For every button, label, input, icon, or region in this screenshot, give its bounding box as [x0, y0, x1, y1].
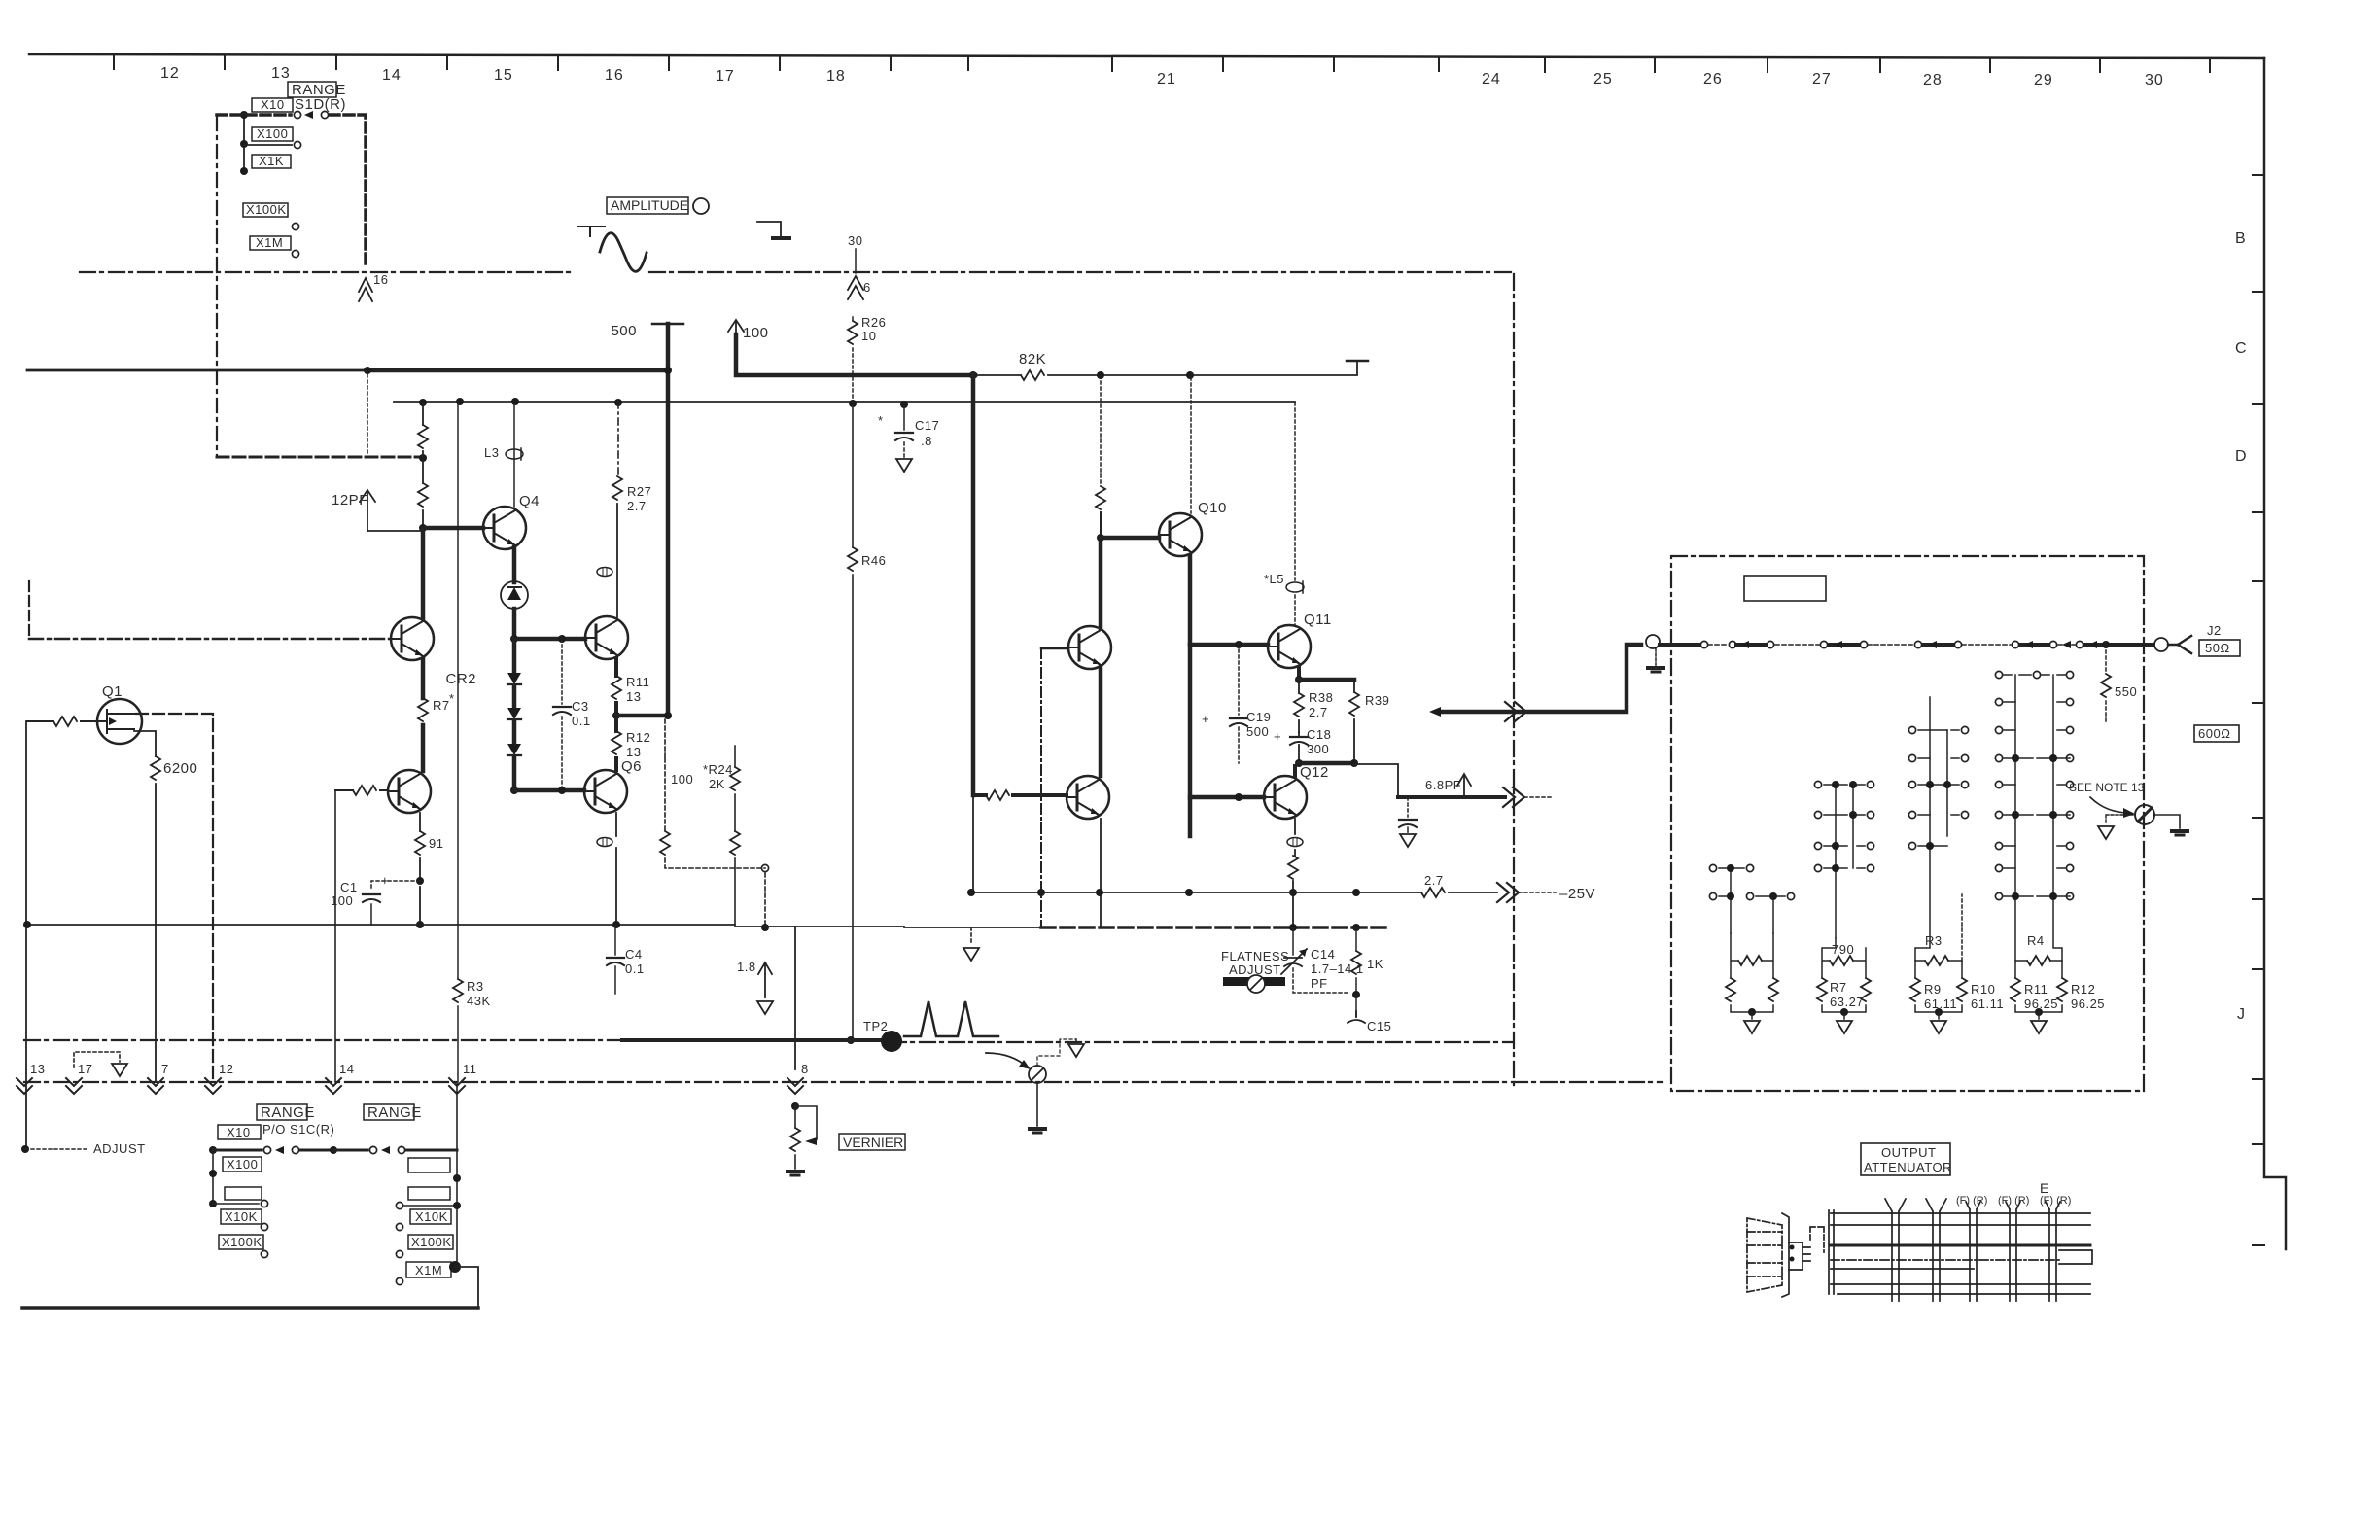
wire bottom heavy rail — [22, 1306, 478, 1310]
svg-text:*R24: *R24 — [703, 762, 733, 777]
wire R46 column — [852, 403, 854, 1038]
RANGE label box lower-right bank — [364, 1104, 414, 1120]
svg-text:CR2: CR2 — [445, 671, 476, 687]
junction y470 / R5 column — [419, 454, 427, 462]
note screw circle — [2135, 805, 2154, 824]
svg-text:2.7: 2.7 — [627, 499, 647, 513]
junction S1D X100 — [240, 140, 248, 148]
svg-text:8: 8 — [801, 1062, 809, 1076]
wire S1D common vertical — [243, 115, 245, 171]
label C1 100 — [331, 873, 389, 908]
wire Q5 base dash-dot — [29, 638, 391, 641]
label E — [2040, 1180, 2048, 1196]
svg-text:C19: C19 — [1246, 710, 1271, 724]
ground arrow below 1.8 — [757, 1001, 773, 1014]
transistor Q5 — [391, 617, 434, 660]
resistor 550 — [2105, 645, 2107, 721]
wire Q1 drain dash to column 12 — [136, 714, 213, 1082]
ground arrow left of screw — [2106, 815, 2135, 824]
resistor R26 10 — [852, 317, 854, 402]
svg-text:82K: 82K — [1019, 351, 1046, 367]
switch S1Cb X100K box — [408, 1235, 453, 1249]
label C15 — [1367, 1019, 1391, 1033]
transistor Q12 — [1264, 776, 1307, 819]
label 790 — [1832, 942, 1854, 957]
wire amplifier output heavy — [1437, 645, 1641, 712]
svg-text:0.1: 0.1 — [625, 962, 645, 976]
wire emitter rail y951 — [27, 924, 735, 926]
svg-text:24: 24 — [1482, 71, 1501, 87]
svg-text:(F) (R): (F) (R) — [2040, 1195, 2071, 1207]
junction Q12 base — [1235, 793, 1242, 801]
svg-text:16: 16 — [373, 272, 388, 287]
svg-text:S1D(R): S1D(R) — [295, 96, 346, 113]
wire TP2 heavy segment on box bottom — [622, 1038, 880, 1042]
attenuator section 3 contacts — [1915, 697, 1959, 961]
wire S1Cb right column — [456, 1082, 458, 1266]
switch S1C X100 box — [223, 1157, 262, 1172]
svg-text:550: 550 — [2115, 684, 2137, 699]
amplifier box dashed top border — [80, 271, 1513, 273]
junction R46 at box bottom — [847, 1036, 855, 1044]
chevrons output crossing box — [1505, 702, 1526, 721]
ground symbol near amplitude — [757, 222, 789, 238]
svg-text:61.11: 61.11 — [1971, 997, 2004, 1011]
ground arrow mid — [970, 927, 972, 945]
label R11 96.25 — [2024, 982, 2058, 1011]
svg-text:29: 29 — [2034, 72, 2053, 88]
label 2.7 — [1424, 873, 1444, 888]
svg-text:14: 14 — [339, 1062, 354, 1076]
arrow 1.8 up — [758, 962, 772, 997]
switch position label X100K — [243, 203, 288, 217]
wire Q12 collector stub — [1293, 766, 1297, 776]
capacitor 12PF — [360, 490, 375, 531]
svg-text:500: 500 — [1246, 724, 1269, 739]
svg-text:R7: R7 — [433, 698, 450, 713]
label + C19 500 — [1202, 710, 1271, 739]
wire preset to ground — [1036, 1083, 1038, 1126]
junction bus / C14 — [1289, 924, 1297, 931]
contact X1M row — [292, 250, 298, 257]
switch S1C X100K box — [219, 1235, 263, 1249]
wire output node thin to corner — [1354, 764, 1398, 797]
wire R5 column — [422, 402, 424, 528]
AMPLITUDE control label — [607, 197, 688, 214]
ground jumper at 17 — [74, 1052, 120, 1067]
zone letters B C D J — [2235, 230, 2248, 1023]
svg-text:C17: C17 — [915, 418, 939, 433]
node 14 entry — [326, 1078, 341, 1094]
svg-text:27: 27 — [1812, 71, 1832, 87]
svg-text:*: * — [449, 691, 455, 706]
svg-text:25: 25 — [1593, 71, 1613, 87]
resistor 1K — [1355, 927, 1357, 995]
wire Q9 base with resistor — [973, 793, 1067, 797]
capacitor 500 feedthrough — [652, 323, 683, 326]
label Q10 — [1198, 500, 1227, 516]
junction -25V / Q12 emitter — [1289, 889, 1297, 896]
wire Q9 emitter down — [1100, 819, 1102, 927]
label 6200 — [163, 760, 197, 777]
wire Q12 emitter with bead — [1293, 819, 1295, 927]
amplifier box dashed right border — [1513, 274, 1515, 1089]
svg-text:R12: R12 — [626, 730, 650, 745]
label R46 — [861, 553, 886, 568]
attenuator section 4 contacts — [2004, 675, 2070, 961]
wire Q11 base heavy — [1190, 643, 1268, 647]
wire Q10 collector dotted up — [1190, 377, 1192, 513]
wire preset sense dotted — [1037, 1039, 1076, 1066]
border zone ticks — [2253, 175, 2264, 1245]
svg-text:13: 13 — [626, 689, 641, 704]
svg-text:FLATNESS: FLATNESS — [1221, 949, 1289, 963]
junction rail A / 12PF column — [364, 367, 371, 374]
label CR2 — [445, 671, 476, 687]
svg-text:12: 12 — [160, 65, 180, 82]
resistor R3 43K — [453, 979, 463, 1002]
chevrons -25V crossing — [1497, 883, 1519, 902]
label R26 10 — [861, 315, 886, 343]
svg-text:PF: PF — [1311, 976, 1328, 991]
arrow X10 wiper — [304, 111, 313, 119]
label Q11 — [1304, 612, 1332, 628]
svg-text:ATTENUATOR: ATTENUATOR — [1864, 1160, 1952, 1174]
waveform pulses — [904, 1001, 998, 1036]
node 12 entry — [205, 1078, 221, 1094]
wire Q6u collector with R27 — [617, 402, 619, 476]
wire diode to node — [512, 609, 517, 639]
svg-text:43K: 43K — [467, 994, 491, 1008]
label FLATNESS ADJUST — [1221, 949, 1289, 977]
switch S1C X10K box — [221, 1209, 262, 1224]
label 12PF — [332, 492, 368, 508]
wire rail951 right segment — [735, 926, 904, 927]
svg-text:R38: R38 — [1309, 690, 1333, 705]
svg-text:J: J — [2237, 1006, 2246, 1023]
svg-text:C14: C14 — [1311, 947, 1335, 962]
svg-text:Q10: Q10 — [1198, 500, 1227, 516]
bead on Q6 emitter — [597, 838, 612, 847]
arrow to note screw — [2090, 797, 2127, 813]
junction output node left — [1295, 759, 1303, 767]
transistor Q6 — [584, 770, 627, 813]
junction rail C / R27 — [614, 399, 622, 406]
junction rail B / Q10 collector — [1186, 371, 1194, 379]
sine source symbol — [578, 227, 647, 271]
junction rail C / R26 — [849, 400, 857, 407]
junction X1M wiper — [449, 1261, 461, 1273]
svg-text:X100K: X100K — [222, 1235, 262, 1249]
svg-text:.8: .8 — [921, 434, 932, 448]
resistor R46 — [848, 547, 857, 571]
node crossing chevrons output — [1503, 787, 1524, 807]
svg-text:28: 28 — [1923, 72, 1942, 88]
svg-text:100: 100 — [671, 772, 693, 787]
label ADJUST — [21, 1145, 29, 1153]
svg-text:91: 91 — [429, 836, 443, 851]
resistor R12 13 — [614, 716, 618, 770]
label S1D(R) — [295, 96, 346, 113]
wire X1M to bottom rail — [455, 1267, 478, 1308]
diode CR2 c — [507, 744, 521, 755]
connector circle at attenuator input — [1646, 635, 1660, 648]
contact at 787/893 — [761, 864, 768, 871]
transistor Q11 — [1268, 625, 1311, 668]
capacitor 100 feedthrough — [728, 320, 744, 334]
svg-text:18: 18 — [826, 68, 846, 85]
wire bias row y470 — [217, 456, 423, 459]
ruler top border line — [29, 54, 2264, 58]
ground at attenuator input — [1655, 648, 1657, 665]
attenuator box dashed border — [1671, 556, 2144, 1091]
transistor Q9 — [1067, 776, 1109, 819]
junction output node right — [1350, 759, 1358, 767]
transistor Q10 — [1159, 513, 1202, 556]
ground bar vernier — [787, 1172, 803, 1175]
attenuator section 2 contacts — [1824, 785, 1865, 938]
resistor 100 — [660, 831, 670, 855]
svg-text:C1: C1 — [340, 880, 358, 894]
junction Q11 base / C19 — [1235, 641, 1242, 648]
svg-text:790: 790 — [1832, 942, 1854, 957]
wire Q8 base dash-dot column — [1041, 647, 1068, 650]
attenuator mechanical drawing knob — [1747, 1213, 1824, 1297]
resistor 2.7 on -25V — [1421, 888, 1445, 897]
wire heavy rail A (left supply line) — [27, 369, 367, 372]
svg-text:X1M: X1M — [415, 1263, 442, 1277]
ruler ticks — [114, 55, 2210, 72]
flatness adjust black bar — [1223, 977, 1285, 986]
wire output node heavy — [1299, 761, 1354, 766]
label 16 — [373, 272, 388, 287]
capacitor C17 — [903, 404, 905, 430]
resistor 82K — [1021, 370, 1044, 380]
J2 fork — [2168, 636, 2191, 653]
svg-text:R9: R9 — [1924, 982, 1942, 997]
attenuator mechanical frame — [1829, 1210, 2092, 1294]
wire Q11 emitter to R39 heavy — [1299, 678, 1354, 682]
transistor Q6u — [585, 616, 628, 659]
wire 6.8PF output line heavy — [1398, 795, 1505, 799]
svg-text:X1M: X1M — [256, 235, 283, 250]
junction node D1 / C3 — [558, 635, 566, 643]
wire attenuator main line thin segments — [1708, 644, 2075, 646]
arrowhead output left — [1429, 707, 1441, 717]
label R27 2.7 — [627, 484, 651, 513]
switch S1Cb blank box b — [408, 1187, 450, 1200]
junction node D2 / C3 — [558, 787, 566, 794]
wire attenuator main line segments — [1660, 643, 2153, 647]
svg-text:R11: R11 — [626, 675, 649, 689]
label 91 — [429, 836, 443, 851]
contact X100 row — [294, 141, 300, 148]
svg-text:OUTPUT: OUTPUT — [1881, 1145, 1936, 1160]
junction rail C / C17 — [900, 401, 908, 408]
svg-text:15: 15 — [494, 67, 513, 84]
junction 550 tap — [2102, 641, 2110, 648]
svg-text:10: 10 — [861, 329, 876, 343]
resistor R5b — [418, 483, 428, 507]
switch S1C X1K box (blank) — [225, 1187, 262, 1200]
junction 1K / C14 — [1352, 991, 1360, 998]
junction bus / 1K — [1352, 924, 1360, 931]
svg-text:R7: R7 — [1830, 980, 1847, 995]
svg-text:2.7: 2.7 — [1309, 705, 1328, 719]
svg-text:(F) (R): (F) (R) — [1998, 1195, 2029, 1207]
junction Q4 base node — [419, 524, 427, 532]
wire Q5b base column to node 14 — [334, 790, 336, 1082]
bead on Q6u collector — [597, 568, 612, 577]
resistor R11 13 — [612, 676, 621, 699]
svg-text:*L5: *L5 — [1264, 572, 1284, 586]
junction rail B / Q9 base feed — [969, 371, 977, 379]
svg-text:E: E — [2040, 1180, 2048, 1196]
sheet right border — [2264, 58, 2286, 1249]
label R3 43K — [467, 979, 491, 1008]
svg-text:R26: R26 — [861, 315, 886, 330]
terminal bar at rail B end — [1347, 360, 1368, 363]
svg-text:12PF: 12PF — [332, 492, 368, 508]
svg-text:TP2: TP2 — [863, 1019, 888, 1033]
junction S1D X1K — [240, 167, 248, 175]
capacitor C1 branch — [371, 881, 420, 891]
labels (F)(R) wafer sides — [1956, 1195, 2071, 1207]
arrow 6.8PF up — [1457, 774, 1471, 797]
svg-text:RANGE: RANGE — [261, 1104, 315, 1121]
svg-text:6200: 6200 — [163, 760, 197, 777]
label 1.8 test point — [737, 960, 756, 974]
switch S1Cb X10K box — [410, 1209, 451, 1224]
svg-text:Q12: Q12 — [1300, 764, 1329, 781]
svg-text:D: D — [2235, 448, 2248, 465]
switch S1Cb X1M box — [406, 1262, 451, 1277]
resistor R24 2K column — [734, 746, 736, 925]
svg-text:6: 6 — [863, 280, 871, 295]
label R24 2K — [703, 762, 733, 791]
wire 100 resistor column — [665, 719, 765, 868]
label R3 — [1925, 933, 1942, 948]
diode CR1 circled — [501, 581, 528, 609]
label R4 — [2027, 933, 2045, 948]
wire Q5 emitter heavy with R7 — [421, 659, 426, 771]
svg-text:21: 21 — [1157, 71, 1176, 87]
svg-text:6.8PF: 6.8PF — [1425, 778, 1461, 792]
svg-text:C3: C3 — [572, 699, 589, 714]
resistor R39 — [1353, 680, 1355, 763]
resistor R5a — [418, 425, 428, 448]
label 550 — [2115, 684, 2137, 699]
switch S1C X10 box — [218, 1125, 261, 1139]
label Q12 — [1300, 764, 1329, 781]
label 6.8PF — [1425, 778, 1461, 792]
wire 12PF to Q4 base node — [367, 530, 423, 532]
wire Q10 base heavy — [1101, 536, 1159, 541]
capacitor C4 0.1 — [614, 925, 616, 994]
junction rail B / Q8 column — [1097, 371, 1104, 379]
wire left dashed drop from X10 row — [216, 117, 218, 457]
wire Q8 emitter to Q9 collector — [1099, 667, 1103, 776]
wire S1C wiper row — [209, 1146, 217, 1154]
inductor L5 on Q11 collector — [1294, 402, 1296, 625]
svg-text:+: + — [381, 873, 389, 888]
wire drop to node 8 — [794, 927, 796, 1069]
node 8 entry — [787, 1078, 803, 1094]
contact X1K left bank — [213, 1203, 259, 1205]
svg-text:13: 13 — [271, 65, 291, 82]
svg-text:X10K: X10K — [415, 1209, 448, 1224]
wire Q4 emitter heavy — [512, 547, 517, 582]
svg-text:+: + — [1274, 729, 1281, 744]
svg-text:50Ω: 50Ω — [2205, 641, 2230, 655]
wire node D1 to Q6u base heavy — [514, 637, 585, 642]
contacts main line — [1700, 641, 1707, 647]
svg-text:R12: R12 — [2071, 982, 2095, 997]
junction C1 tap — [416, 877, 424, 885]
wire X10 wiper row — [217, 113, 291, 117]
inductor L3 on Q4 collector — [513, 402, 515, 507]
resistor 91 — [415, 831, 425, 855]
svg-text:X100K: X100K — [411, 1235, 452, 1249]
switch S1Cb blank box a — [408, 1158, 450, 1172]
contact X10 row — [294, 111, 300, 118]
svg-text:C4: C4 — [625, 947, 643, 962]
junction Q5b emitter rail — [416, 921, 424, 928]
resistor R7* — [418, 698, 428, 721]
wire Q11 emitter node — [1297, 668, 1301, 680]
resistor R38 2.7 — [1298, 680, 1300, 732]
label VERNIER — [839, 1134, 905, 1150]
wire left edge vertical — [25, 721, 27, 1149]
label 50 ohm box — [2199, 640, 2240, 656]
svg-text:+: + — [1202, 712, 1209, 726]
svg-text:SEE NOTE 13: SEE NOTE 13 — [2069, 781, 2145, 794]
node 30 entry — [848, 233, 862, 248]
RANGE label box lower-left bank — [257, 1104, 307, 1120]
svg-text:100: 100 — [743, 325, 769, 341]
junction rail C / R5 column — [419, 399, 427, 406]
label C3 0.1 — [572, 699, 591, 728]
switch position label X1M — [250, 236, 291, 250]
wire connector rail y1113 dash-dot — [24, 1081, 1662, 1083]
wire screw to ground right — [2154, 815, 2180, 828]
junction at 500 column — [664, 712, 672, 719]
svg-text:16: 16 — [605, 67, 624, 84]
svg-text:AMPLITUDE: AMPLITUDE — [611, 197, 688, 213]
preset wiper arc — [986, 1053, 1027, 1067]
junction node D1 — [510, 635, 518, 643]
svg-text:R11: R11 — [2024, 982, 2047, 997]
wire node to 500cap column heavy — [616, 714, 668, 718]
label R9 61.11 — [1924, 982, 1957, 1011]
label R7 * — [433, 691, 455, 713]
svg-text:14: 14 — [382, 67, 402, 84]
svg-text:300: 300 — [1307, 742, 1329, 756]
wire X10 row to corner — [330, 115, 366, 268]
svg-text:Q6: Q6 — [621, 758, 642, 775]
transistor Q5b — [388, 770, 431, 813]
label R11 13 — [626, 675, 649, 704]
AMPLITUDE knob circle — [693, 198, 709, 214]
svg-text:500: 500 — [611, 323, 637, 339]
node 11 entry — [449, 1078, 465, 1094]
svg-text:R39: R39 — [1365, 693, 1389, 708]
resistor R27 2.7 — [612, 476, 622, 500]
svg-text:13: 13 — [626, 745, 641, 759]
transistor Q1 (FET) — [97, 699, 142, 744]
wire flatness bus dashed heavy — [904, 927, 1041, 928]
label Q1 — [102, 683, 122, 700]
